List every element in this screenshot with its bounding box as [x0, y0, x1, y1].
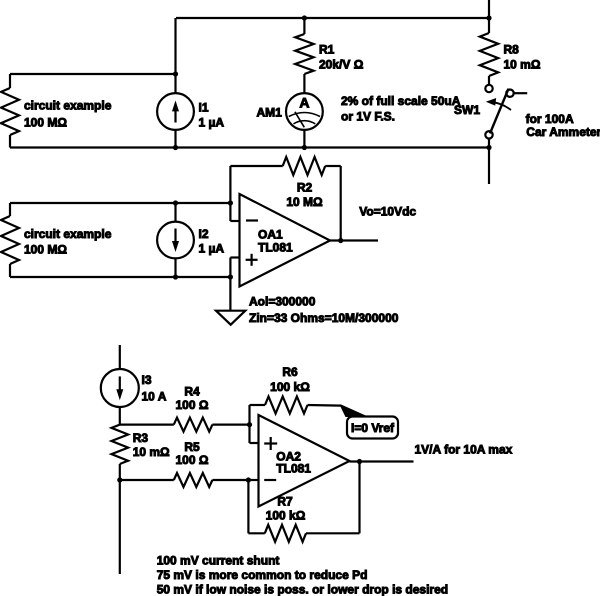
wire SW1 bottom lead: [488, 139, 490, 148]
wire feedback left vertical: [229, 166, 231, 221]
node OA1 output: [338, 238, 343, 243]
label for 100A Car Ammeter: [526, 112, 600, 139]
label Aol Zin: [249, 295, 399, 325]
wire ground lead: [229, 277, 231, 311]
wire R4 left lead: [120, 424, 174, 426]
resistor circuit example 100 Mohm (middle): [1, 203, 230, 277]
label I1 value: [199, 101, 225, 130]
svg-text:R3: R3: [133, 431, 149, 445]
wire top stub at R8: [488, 0, 490, 18]
wire inverting input OA2: [248, 479, 258, 481]
svg-text:100 mV current shunt: 100 mV current shunt: [157, 554, 280, 568]
svg-text:1V/A for 10A max: 1V/A for 10A max: [415, 443, 513, 457]
wire feedback top left: [230, 165, 282, 167]
svg-text:100 Ω: 100 Ω: [176, 398, 209, 412]
svg-text:R1: R1: [319, 43, 335, 57]
wire top rail: [176, 17, 489, 19]
svg-text:1 µA: 1 µA: [199, 116, 225, 130]
wire I1 bottom lead: [174, 130, 176, 148]
svg-text:R4: R4: [184, 385, 200, 399]
wire non-inverting input jog: [230, 256, 239, 258]
wire box2 bottom rail: [10, 276, 230, 278]
svg-text:R6: R6: [282, 365, 298, 379]
label R3 value: [133, 431, 170, 459]
label 2% of full scale: [341, 94, 461, 124]
node top rail / R1: [302, 15, 307, 20]
resistor R7: [265, 525, 306, 542]
svg-text:I2: I2: [199, 227, 209, 241]
ammeter AM1: [286, 93, 323, 130]
wire output stub below SW1: [488, 148, 490, 185]
label circuit example (top): [24, 99, 112, 130]
wire R4 right lead: [212, 424, 249, 426]
svg-text:I3: I3: [142, 373, 152, 387]
wire R5 right lead: [212, 479, 248, 481]
wire feedback top right: [325, 165, 341, 167]
svg-text:20k/V Ω: 20k/V Ω: [319, 58, 364, 72]
svg-text:Vo=10Vdc: Vo=10Vdc: [359, 205, 416, 219]
svg-text:100 MΩ: 100 MΩ: [24, 116, 67, 130]
svg-text:or 1V F.S.: or 1V F.S.: [341, 110, 395, 124]
label current shunt notes: [157, 554, 448, 596]
node R3 bottom / R5: [117, 477, 122, 482]
svg-text:circuit example: circuit example: [24, 227, 112, 241]
svg-text:2% of full scale 50uA: 2% of full scale 50uA: [341, 94, 461, 108]
node R4 / R6 / non-inverting OA2: [247, 422, 252, 427]
svg-text:Zin=33 Ohms=10M/300000: Zin=33 Ohms=10M/300000: [249, 311, 399, 325]
svg-text:10 A: 10 A: [142, 390, 167, 404]
node bottom rail / I1: [173, 145, 178, 150]
label circuit example (middle): [24, 227, 112, 257]
wire OA1 output: [330, 239, 378, 241]
wire I3 bottom lead: [119, 407, 121, 425]
label AM1: [257, 106, 283, 120]
svg-text:100 kΩ: 100 kΩ: [270, 380, 310, 394]
svg-text:circuit example: circuit example: [24, 99, 112, 113]
svg-text:TL081: TL081: [258, 241, 293, 255]
svg-text:Car Ammeter: Car Ammeter: [526, 125, 600, 139]
op-amp OA1: [240, 194, 331, 287]
wire bottom rail (top section): [10, 146, 489, 148]
svg-text:10 MΩ: 10 MΩ: [286, 195, 323, 209]
resistor R3: [112, 425, 129, 480]
label R6 value: [270, 365, 310, 394]
svg-text:R2: R2: [297, 180, 313, 194]
label Vo=10Vdc: [359, 205, 416, 219]
resistor circuit example 100 Mohm (top): [1, 74, 176, 148]
svg-text:1 µA: 1 µA: [199, 242, 225, 256]
svg-text:10 mΩ: 10 mΩ: [133, 445, 170, 459]
current source I2: [157, 222, 194, 259]
wire R5 left lead: [120, 479, 174, 481]
switch SW1: [485, 85, 527, 139]
wire R6 left lead: [250, 404, 266, 406]
svg-text:AM1: AM1: [257, 106, 283, 120]
label 1V/A for 10A max: [415, 443, 513, 457]
svg-text:for 100A: for 100A: [526, 112, 574, 126]
wire R6 right lead: [308, 404, 342, 407]
label R8 value: [504, 43, 541, 72]
label I2 value: [199, 227, 225, 256]
wire R7 right lead: [306, 532, 360, 534]
svg-text:100 kΩ: 100 kΩ: [266, 509, 306, 523]
resistor R2: [283, 157, 326, 175]
label I3 value: [142, 373, 167, 404]
wire bottom left vertical: [119, 480, 121, 574]
wire I2 top lead: [174, 203, 176, 222]
wire non-inverting input OA2: [250, 442, 259, 444]
svg-text:I1: I1: [199, 101, 209, 115]
current source I1: [157, 93, 194, 130]
label SW1: [454, 103, 480, 117]
node R5 / R7 / inverting OA2: [246, 477, 251, 482]
svg-text:R7: R7: [277, 495, 293, 509]
wire feedback right vertical: [340, 166, 342, 241]
resistor R8: [480, 18, 498, 85]
wire I1 top lead: [174, 18, 176, 94]
label R4 value: [176, 385, 209, 413]
svg-text:100 Ω: 100 Ω: [176, 453, 209, 467]
resistor R5: [174, 473, 213, 487]
node OA2 output: [357, 459, 362, 464]
svg-text:I=0 Vref: I=0 Vref: [351, 421, 395, 435]
svg-text:Aol=300000: Aol=300000: [249, 295, 316, 309]
node box1 top / I1: [173, 71, 178, 76]
node bottom rail / SW1: [486, 145, 491, 150]
svg-text:75 mV is more common to reduce: 75 mV is more common to reduce Pd: [157, 568, 368, 582]
svg-text:R5: R5: [184, 440, 200, 454]
node top rail / R8: [486, 15, 491, 20]
label R2 value: [286, 180, 323, 209]
svg-text:TL081: TL081: [276, 462, 311, 476]
wire R7 right vertical: [358, 462, 360, 534]
wire OA2 output: [350, 460, 414, 462]
wire R6 branch vertical: [248, 405, 250, 443]
label R7 value: [266, 495, 306, 523]
wire inverting input jog: [230, 220, 239, 222]
svg-text:50 mV if low noise is poss. or: 50 mV if low noise is poss. or lower dro…: [157, 583, 448, 596]
wire non-inverting jog vertical: [229, 258, 231, 278]
label R5 value: [176, 440, 209, 467]
node box2 bottom / I2: [173, 274, 178, 279]
op-amp OA2: [259, 415, 350, 507]
node inverting input OA1: [228, 200, 233, 205]
svg-text:10 mΩ: 10 mΩ: [504, 58, 541, 72]
flag pointer to Vref label: [341, 404, 370, 417]
svg-text:A: A: [299, 95, 309, 111]
current source I3: [101, 369, 139, 407]
svg-text:OA1: OA1: [258, 228, 283, 242]
label box I=0 Vref: [347, 417, 398, 439]
resistor R4: [174, 418, 213, 432]
ground: [216, 311, 245, 325]
wire I3 top stub: [119, 345, 121, 369]
resistor R1: [295, 18, 313, 94]
label OA1 TL081: [258, 228, 293, 255]
label R1 value: [319, 43, 364, 72]
svg-text:100 MΩ: 100 MΩ: [24, 243, 67, 257]
node non-inverting input OA1: [228, 274, 233, 279]
label OA2 TL081: [276, 450, 311, 476]
wire I2 bottom lead: [174, 258, 176, 277]
svg-text:SW1: SW1: [454, 103, 480, 117]
wire AM1 bottom lead: [303, 130, 305, 148]
wire R7 left lead: [248, 532, 264, 534]
node box2 top / I2: [173, 200, 178, 205]
node bottom rail / AM1: [302, 145, 307, 150]
svg-text:R8: R8: [504, 43, 520, 57]
resistor R6: [265, 397, 308, 414]
wire R7 left vertical: [247, 480, 249, 533]
